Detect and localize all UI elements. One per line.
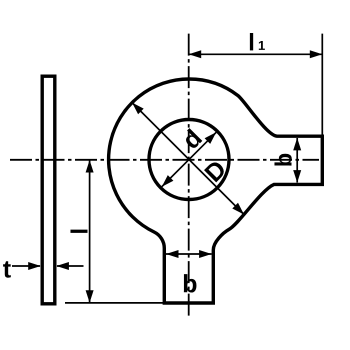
dimension b (bottom tab) [166,253,212,255]
label b (right tab) [274,154,291,166]
label d [181,128,203,150]
extension line bottom (l) [65,302,164,304]
label l1 subscript [259,41,265,50]
horizontal centerline [10,159,319,161]
dimension d (hole diameter) [162,132,216,186]
dimension b (right tab) [296,138,298,183]
dimension line l [89,160,91,302]
washer side view [42,76,55,304]
label l1 [250,33,253,50]
label D [204,159,227,182]
label t [3,261,11,278]
dimension D (outer diameter) [132,103,244,215]
dimension t arrows [12,265,40,267]
label l [70,230,87,233]
inner hole circle d [149,120,229,200]
tab washer outline (front view) [109,79,323,303]
vertical centerline [188,34,190,317]
extension line right (l1) [321,34,323,137]
label b (bottom tab) [184,274,197,292]
dimension line l1 [189,53,323,55]
